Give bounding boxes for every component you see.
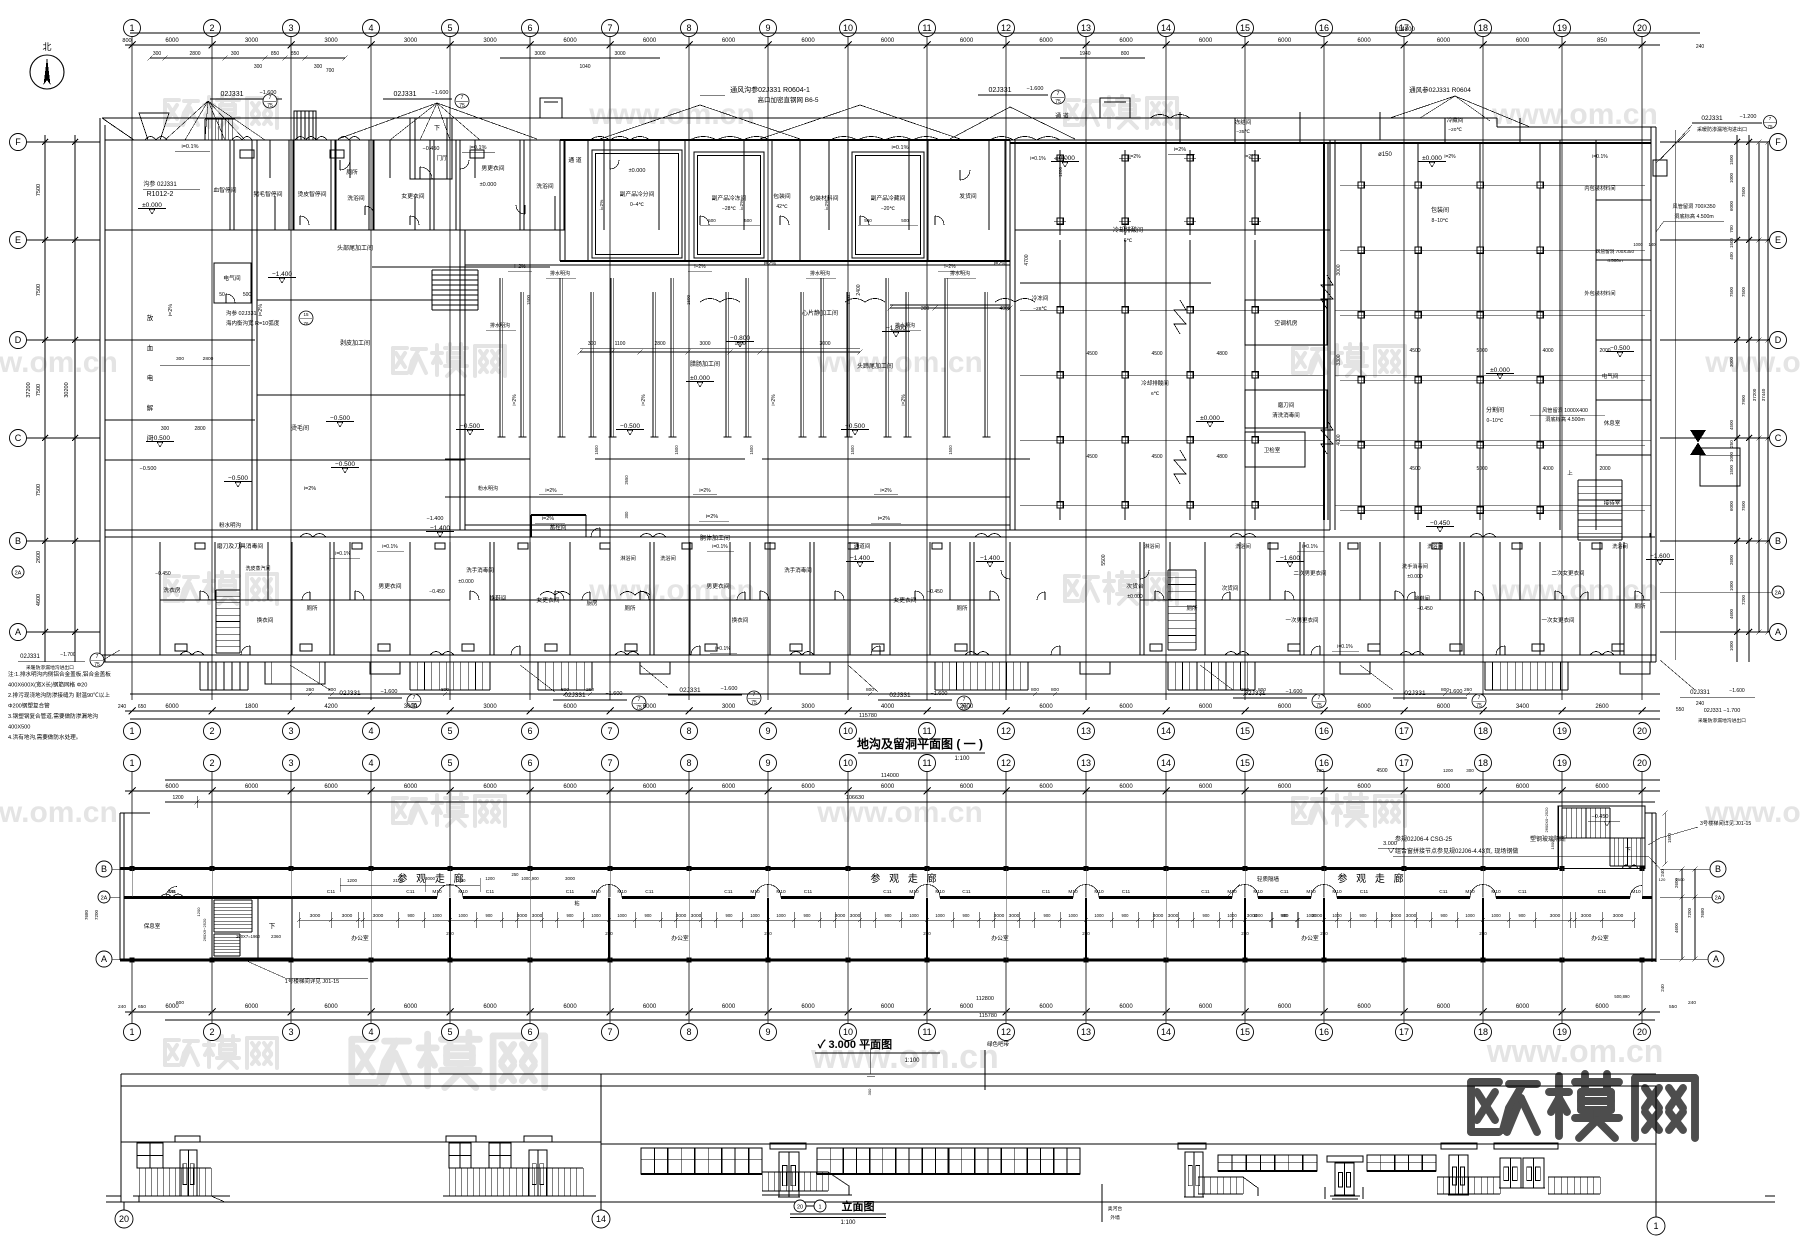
svg-text:3: 3 bbox=[288, 1027, 293, 1037]
svg-text:2A: 2A bbox=[1715, 896, 1722, 902]
svg-text:−0.450: −0.450 bbox=[155, 571, 171, 577]
svg-text:C11: C11 bbox=[1122, 889, 1131, 895]
svg-text:9: 9 bbox=[765, 1027, 770, 1037]
svg-text:6000: 6000 bbox=[1199, 784, 1213, 790]
svg-text:12: 12 bbox=[1001, 758, 1011, 768]
svg-text:6000: 6000 bbox=[1278, 704, 1292, 710]
svg-text:6000: 6000 bbox=[1119, 784, 1133, 790]
svg-text:心片静加工间: 心片静加工间 bbox=[802, 309, 838, 317]
svg-text:2A: 2A bbox=[1775, 591, 1782, 597]
svg-text:1500: 1500 bbox=[594, 445, 599, 455]
svg-text:300: 300 bbox=[1466, 768, 1474, 773]
svg-text:3: 3 bbox=[288, 23, 293, 33]
svg-text:C11: C11 bbox=[962, 889, 971, 895]
svg-text:7: 7 bbox=[96, 654, 99, 660]
svg-text:3000: 3000 bbox=[373, 913, 384, 919]
svg-text:115780: 115780 bbox=[859, 713, 877, 719]
svg-text:i=2%: i=2% bbox=[258, 304, 264, 316]
svg-text:−1.200: −1.200 bbox=[1740, 114, 1757, 120]
svg-text:1000: 1000 bbox=[1306, 913, 1316, 918]
svg-text:4800: 4800 bbox=[1216, 454, 1227, 460]
svg-text:清洗消毒间: 清洗消毒间 bbox=[1272, 411, 1300, 419]
svg-text:240: 240 bbox=[118, 704, 127, 710]
svg-text:剥皮加工间: 剥皮加工间 bbox=[340, 339, 370, 347]
svg-text:300: 300 bbox=[921, 306, 930, 312]
svg-text:厕所: 厕所 bbox=[306, 604, 318, 612]
svg-text:10: 10 bbox=[843, 758, 853, 768]
svg-text:−1.600: −1.600 bbox=[1280, 555, 1300, 562]
svg-text:6000: 6000 bbox=[324, 1004, 338, 1010]
svg-text:1000: 1000 bbox=[458, 913, 468, 918]
svg-text:±0.000: ±0.000 bbox=[1055, 155, 1075, 162]
svg-text:±0.000: ±0.000 bbox=[1422, 155, 1442, 162]
svg-text:800: 800 bbox=[1441, 687, 1449, 693]
svg-text:02J331: 02J331 bbox=[394, 91, 417, 98]
svg-text:±0.000: ±0.000 bbox=[142, 202, 162, 209]
svg-text:−0.500: −0.500 bbox=[1610, 345, 1630, 352]
svg-text:通风沟参02J331 R0604-1: 通风沟参02J331 R0604-1 bbox=[730, 85, 810, 94]
svg-text:800: 800 bbox=[561, 687, 569, 693]
svg-text:6000: 6000 bbox=[165, 784, 179, 790]
svg-text:±0.000: ±0.000 bbox=[629, 168, 646, 174]
svg-text:17: 17 bbox=[1399, 1027, 1409, 1037]
svg-text:C11: C11 bbox=[1201, 889, 1210, 895]
svg-text:3000: 3000 bbox=[614, 51, 625, 57]
svg-text:i=2%: i=2% bbox=[512, 394, 518, 406]
svg-text:6: 6 bbox=[527, 758, 532, 768]
svg-text:500: 500 bbox=[708, 218, 716, 223]
svg-text:一次女更衣间: 一次女更衣间 bbox=[1541, 616, 1574, 624]
svg-text:6000: 6000 bbox=[404, 1004, 418, 1010]
svg-text:3000: 3000 bbox=[691, 913, 702, 919]
svg-text:3000: 3000 bbox=[1153, 913, 1164, 919]
svg-text:850: 850 bbox=[291, 51, 300, 57]
svg-text:二次男更衣间: 二次男更衣间 bbox=[1293, 569, 1326, 577]
svg-text:6000: 6000 bbox=[1199, 704, 1213, 710]
svg-text:6: 6 bbox=[527, 1027, 532, 1037]
svg-text:奥河台: 奥河台 bbox=[1108, 1205, 1123, 1212]
svg-text:6000: 6000 bbox=[1729, 200, 1734, 211]
svg-text:300: 300 bbox=[153, 51, 162, 57]
svg-text:6000: 6000 bbox=[1595, 784, 1609, 790]
svg-text:10: 10 bbox=[843, 1027, 853, 1037]
svg-text:17: 17 bbox=[1399, 758, 1409, 768]
svg-text:02J331: 02J331 bbox=[989, 87, 1012, 94]
svg-text:厕所: 厕所 bbox=[956, 604, 968, 612]
svg-text:www.om.cn: www.om.cn bbox=[816, 346, 983, 379]
svg-text:106630: 106630 bbox=[846, 795, 864, 801]
svg-text:30200: 30200 bbox=[64, 382, 70, 397]
svg-text:−0.500: −0.500 bbox=[150, 435, 170, 442]
svg-text:−0.450: −0.450 bbox=[1417, 606, 1433, 612]
svg-text:18: 18 bbox=[1478, 726, 1488, 736]
svg-text:650: 650 bbox=[138, 704, 147, 710]
svg-text:厕所: 厕所 bbox=[1634, 602, 1646, 610]
svg-text:14: 14 bbox=[1161, 1027, 1171, 1037]
svg-text:塑钢玻璃隔断: 塑钢玻璃隔断 bbox=[1530, 835, 1566, 843]
svg-text:75: 75 bbox=[459, 103, 465, 109]
svg-text:洗浴间: 洗浴间 bbox=[536, 182, 554, 190]
svg-text:1600: 1600 bbox=[1424, 866, 1434, 871]
svg-text:i=0.1%: i=0.1% bbox=[712, 544, 728, 550]
svg-text:16: 16 bbox=[1319, 726, 1329, 736]
svg-text:洗浴间: 洗浴间 bbox=[1235, 542, 1251, 550]
svg-text:4.500m: 4.500m bbox=[1607, 258, 1622, 263]
svg-text:1000: 1000 bbox=[1729, 451, 1734, 462]
svg-text:通风参02J331 R0604: 通风参02J331 R0604 bbox=[1409, 85, 1471, 94]
svg-text:120: 120 bbox=[1337, 866, 1344, 871]
svg-text:3000: 3000 bbox=[483, 38, 497, 44]
svg-text:7500: 7500 bbox=[1741, 286, 1746, 297]
svg-text:13: 13 bbox=[1081, 726, 1091, 736]
svg-text:排水明沟: 排水明沟 bbox=[895, 322, 915, 329]
svg-text:男更衣间: 男更衣间 bbox=[481, 164, 504, 172]
svg-text:900: 900 bbox=[1044, 913, 1052, 918]
svg-text:6000: 6000 bbox=[1039, 1004, 1053, 1010]
svg-text:800: 800 bbox=[1258, 687, 1266, 693]
svg-text:500: 500 bbox=[901, 218, 909, 223]
svg-text:250: 250 bbox=[923, 931, 931, 936]
svg-text:1: 1 bbox=[129, 758, 134, 768]
svg-text:下: 下 bbox=[1625, 847, 1631, 854]
svg-text:M10: M10 bbox=[776, 889, 786, 895]
svg-text:300: 300 bbox=[624, 511, 629, 519]
svg-text:A: A bbox=[1775, 627, 1781, 637]
svg-text:8−10℃: 8−10℃ bbox=[1432, 218, 1449, 224]
svg-text:500: 500 bbox=[243, 292, 252, 298]
svg-text:7900: 7900 bbox=[1741, 394, 1746, 405]
svg-text:风管留洞 700X350: 风管留洞 700X350 bbox=[1673, 202, 1716, 210]
svg-text:风管留洞 1000X400: 风管留洞 1000X400 bbox=[1542, 406, 1588, 414]
svg-text:300: 300 bbox=[176, 356, 184, 362]
svg-text:1500: 1500 bbox=[846, 294, 851, 305]
svg-text:900: 900 bbox=[1519, 913, 1527, 918]
svg-text:1040: 1040 bbox=[579, 64, 590, 70]
svg-text:3000: 3000 bbox=[310, 913, 321, 919]
svg-text:02J331: 02J331 bbox=[679, 687, 701, 694]
svg-text:M10: M10 bbox=[1306, 889, 1316, 895]
svg-text:6000: 6000 bbox=[643, 784, 657, 790]
svg-text:6000: 6000 bbox=[1357, 1004, 1371, 1010]
svg-text:副产品冷藏间: 副产品冷藏间 bbox=[871, 194, 906, 202]
svg-text:02J331: 02J331 bbox=[1690, 690, 1710, 696]
svg-text:400X600X(宽X长)钢筋网格 Φ20: 400X600X(宽X长)钢筋网格 Φ20 bbox=[8, 681, 87, 689]
svg-text:1200: 1200 bbox=[347, 878, 358, 883]
svg-text:240: 240 bbox=[1688, 1000, 1696, 1006]
svg-text:260X9−2520: 260X9−2520 bbox=[202, 918, 207, 942]
svg-text:1500: 1500 bbox=[749, 445, 754, 455]
svg-text:3000: 3000 bbox=[1168, 913, 1179, 919]
svg-text:i=2%: i=2% bbox=[699, 488, 711, 494]
svg-text:3.钢塑钢复合管道,需要做防渗漏地沟: 3.钢塑钢复合管道,需要做防渗漏地沟 bbox=[8, 712, 99, 720]
svg-text:烫毛间: 烫毛间 bbox=[291, 424, 309, 432]
svg-text:7: 7 bbox=[607, 1027, 612, 1037]
svg-text:−1.600: −1.600 bbox=[1650, 553, 1670, 560]
svg-text:19: 19 bbox=[1557, 726, 1567, 736]
svg-text:1800: 1800 bbox=[245, 704, 259, 710]
svg-text:20: 20 bbox=[1637, 758, 1647, 768]
svg-text:14: 14 bbox=[1161, 726, 1171, 736]
svg-text:6000: 6000 bbox=[563, 38, 577, 44]
svg-text:6000: 6000 bbox=[1039, 784, 1053, 790]
svg-text:300: 300 bbox=[161, 426, 170, 432]
svg-text:20: 20 bbox=[1637, 23, 1647, 33]
svg-text:B: B bbox=[1715, 864, 1721, 874]
svg-text:1: 1 bbox=[129, 726, 134, 736]
svg-text:www.om.cn: www.om.cn bbox=[816, 796, 983, 829]
svg-text:男更衣间: 男更衣间 bbox=[706, 582, 729, 590]
svg-text:ø150: ø150 bbox=[1378, 152, 1392, 158]
svg-text:1500: 1500 bbox=[1729, 154, 1734, 165]
svg-text:16: 16 bbox=[1319, 1027, 1329, 1037]
svg-text:6000: 6000 bbox=[404, 784, 418, 790]
svg-text:3000: 3000 bbox=[1729, 356, 1734, 367]
svg-text:1500: 1500 bbox=[526, 294, 531, 305]
svg-text:1000: 1000 bbox=[1094, 913, 1104, 918]
svg-text:250: 250 bbox=[1479, 931, 1487, 936]
svg-text:42℃: 42℃ bbox=[776, 204, 788, 210]
svg-text:3000: 3000 bbox=[1247, 913, 1258, 919]
svg-text:800: 800 bbox=[1031, 687, 1039, 693]
svg-text:A: A bbox=[1713, 954, 1719, 964]
svg-text:3000: 3000 bbox=[565, 876, 576, 881]
svg-text:750: 750 bbox=[459, 878, 467, 883]
svg-text:3000: 3000 bbox=[342, 913, 353, 919]
svg-text:1500: 1500 bbox=[1667, 832, 1672, 843]
svg-text:850: 850 bbox=[271, 51, 280, 57]
svg-text:7680: 7680 bbox=[84, 909, 89, 920]
svg-text:7: 7 bbox=[607, 758, 612, 768]
svg-text:轻质隔墙: 轻质隔墙 bbox=[1257, 875, 1280, 883]
svg-text:4200: 4200 bbox=[324, 704, 338, 710]
svg-text:19: 19 bbox=[1557, 758, 1567, 768]
svg-text:11: 11 bbox=[922, 758, 931, 768]
svg-text:通 道: 通 道 bbox=[1055, 112, 1069, 120]
svg-text:260X7=1960: 260X7=1960 bbox=[236, 934, 261, 939]
svg-text:1000: 1000 bbox=[1729, 640, 1734, 651]
svg-text:办公室: 办公室 bbox=[671, 934, 689, 942]
svg-text:75: 75 bbox=[1476, 703, 1482, 709]
svg-text:500: 500 bbox=[744, 218, 752, 223]
svg-text:250: 250 bbox=[1082, 931, 1090, 936]
svg-text:C: C bbox=[15, 433, 22, 443]
svg-text:C11: C11 bbox=[1360, 889, 1369, 895]
svg-text:1000: 1000 bbox=[1227, 913, 1237, 918]
svg-text:−0.450: −0.450 bbox=[423, 146, 440, 152]
svg-text:2: 2 bbox=[209, 1027, 214, 1037]
svg-text:6000: 6000 bbox=[165, 704, 179, 710]
svg-text:冷却排酸间: 冷却排酸间 bbox=[1113, 226, 1143, 234]
svg-text:M10: M10 bbox=[1332, 889, 1342, 895]
svg-text:6000: 6000 bbox=[1357, 784, 1371, 790]
svg-text:头部尾加工间: 头部尾加工间 bbox=[337, 244, 373, 252]
svg-text:3000: 3000 bbox=[835, 913, 846, 919]
svg-text:C11: C11 bbox=[1280, 889, 1289, 895]
svg-text:02J331 −1.700: 02J331 −1.700 bbox=[1704, 708, 1741, 714]
svg-text:2: 2 bbox=[209, 758, 214, 768]
svg-text:75: 75 bbox=[1055, 99, 1061, 105]
svg-text:6000: 6000 bbox=[1357, 38, 1371, 44]
svg-text:900: 900 bbox=[645, 913, 653, 918]
svg-text:C11: C11 bbox=[1439, 889, 1448, 895]
svg-text:−1.400: −1.400 bbox=[430, 525, 450, 532]
svg-text:R1012-2: R1012-2 bbox=[147, 191, 174, 198]
svg-text:M10: M10 bbox=[1253, 889, 1263, 895]
svg-text:6000: 6000 bbox=[1039, 38, 1053, 44]
svg-text:11: 11 bbox=[922, 23, 931, 33]
svg-text:3000: 3000 bbox=[1009, 913, 1020, 919]
svg-text:A: A bbox=[101, 954, 107, 964]
svg-text:−28℃: −28℃ bbox=[722, 206, 736, 212]
svg-text:8: 8 bbox=[686, 23, 691, 33]
svg-text:14: 14 bbox=[1161, 758, 1171, 768]
svg-text:男更衣间: 男更衣间 bbox=[378, 582, 401, 590]
svg-text:13: 13 bbox=[1081, 1027, 1091, 1037]
svg-text:114800: 114800 bbox=[1395, 27, 1415, 33]
svg-text:6000: 6000 bbox=[1729, 500, 1734, 511]
svg-text:6000: 6000 bbox=[483, 1004, 497, 1010]
svg-text:700: 700 bbox=[326, 68, 335, 74]
svg-text:6000: 6000 bbox=[643, 1004, 657, 1010]
svg-text:C11: C11 bbox=[566, 889, 575, 895]
svg-text:650: 650 bbox=[138, 1004, 146, 1010]
svg-text:i=2%: i=2% bbox=[944, 264, 956, 270]
svg-text:4: 4 bbox=[368, 1027, 373, 1037]
svg-text:6000: 6000 bbox=[563, 704, 577, 710]
svg-text:换鞋间: 换鞋间 bbox=[490, 594, 507, 602]
svg-text:E: E bbox=[1775, 235, 1781, 245]
svg-text:1100: 1100 bbox=[615, 341, 626, 347]
svg-text:12: 12 bbox=[1001, 1027, 1011, 1037]
svg-text:i=2%: i=2% bbox=[706, 514, 718, 520]
svg-text:3000: 3000 bbox=[801, 704, 815, 710]
svg-text:7500: 7500 bbox=[1741, 500, 1746, 511]
svg-text:19: 19 bbox=[1557, 1027, 1567, 1037]
svg-text:250: 250 bbox=[1320, 931, 1328, 936]
svg-text:6000: 6000 bbox=[643, 38, 657, 44]
svg-text:800: 800 bbox=[441, 687, 449, 693]
svg-text:C: C bbox=[1775, 433, 1782, 443]
svg-text:1: 1 bbox=[818, 1205, 821, 1211]
svg-text:6000: 6000 bbox=[1278, 38, 1292, 44]
svg-text:洗手消毒间: 洗手消毒间 bbox=[466, 566, 494, 574]
svg-text:组合窗拼接节点参见规02J06-4.43页, 现场钢做: 组合窗拼接节点参见规02J06-4.43页, 现场钢做 bbox=[1395, 847, 1518, 855]
svg-text:4.洪有地沟,需要做防水处理。: 4.洪有地沟,需要做防水处理。 bbox=[8, 733, 81, 741]
svg-text:2: 2 bbox=[209, 726, 214, 736]
svg-text:海内衡沟宽 R=10弧度: 海内衡沟宽 R=10弧度 bbox=[226, 319, 280, 327]
svg-text:7: 7 bbox=[638, 697, 641, 703]
svg-text:洗皮蒸汽间: 洗皮蒸汽间 bbox=[245, 565, 270, 572]
svg-text:02J331: 02J331 bbox=[20, 654, 40, 660]
svg-text:−0.450: −0.450 bbox=[429, 589, 445, 595]
svg-text:6000: 6000 bbox=[881, 784, 895, 790]
svg-text:B: B bbox=[1775, 536, 1781, 546]
svg-text:6000: 6000 bbox=[324, 784, 338, 790]
svg-text:1: 1 bbox=[129, 23, 134, 33]
svg-text:6000: 6000 bbox=[1119, 1004, 1133, 1010]
svg-text:3300: 3300 bbox=[1336, 354, 1342, 365]
svg-text:M10: M10 bbox=[1465, 889, 1475, 895]
svg-text:i=0.1%: i=0.1% bbox=[1337, 644, 1353, 650]
svg-text:4600: 4600 bbox=[1729, 608, 1734, 619]
svg-text:1200: 1200 bbox=[196, 907, 201, 917]
svg-text:i=2%: i=2% bbox=[739, 199, 745, 211]
svg-text:i=2%: i=2% bbox=[1174, 147, 1186, 153]
svg-text:采暖防渗漏地沟进出口: 采暖防渗漏地沟进出口 bbox=[1698, 717, 1746, 724]
svg-text:1000: 1000 bbox=[1729, 172, 1734, 183]
svg-text:50: 50 bbox=[219, 292, 225, 298]
svg-text:i=2%: i=2% bbox=[880, 488, 892, 494]
svg-text:550: 550 bbox=[1669, 1004, 1677, 1010]
svg-text:C11: C11 bbox=[804, 889, 813, 895]
svg-text:冷却排酸间: 冷却排酸间 bbox=[1141, 379, 1169, 387]
svg-text:下: 下 bbox=[269, 922, 276, 930]
svg-text:6000: 6000 bbox=[245, 1004, 259, 1010]
svg-text:3000: 3000 bbox=[1406, 913, 1417, 919]
svg-text:6000: 6000 bbox=[722, 1004, 736, 1010]
svg-text:300: 300 bbox=[867, 1088, 872, 1095]
svg-text:6000: 6000 bbox=[1278, 1004, 1292, 1010]
svg-text:休息室: 休息室 bbox=[1604, 419, 1621, 427]
svg-text:9: 9 bbox=[765, 758, 770, 768]
svg-text:C11: C11 bbox=[327, 889, 336, 895]
svg-text:女更衣间: 女更衣间 bbox=[536, 596, 559, 604]
svg-text:2A: 2A bbox=[101, 896, 108, 902]
svg-text:260: 260 bbox=[1241, 687, 1249, 693]
svg-text:75: 75 bbox=[1767, 124, 1773, 129]
svg-text:5: 5 bbox=[447, 758, 452, 768]
svg-text:C11: C11 bbox=[486, 889, 495, 895]
svg-text:i=2%: i=2% bbox=[1444, 154, 1456, 160]
svg-text:3000: 3000 bbox=[1550, 913, 1561, 919]
svg-text:4500: 4500 bbox=[1729, 419, 1734, 430]
svg-text:400: 400 bbox=[1729, 252, 1734, 260]
svg-text:37200: 37200 bbox=[26, 382, 32, 397]
svg-text:2600X0−2520: 2600X0−2520 bbox=[1544, 807, 1549, 833]
svg-text:厨房: 厨房 bbox=[586, 599, 598, 607]
svg-text:900: 900 bbox=[885, 913, 893, 918]
svg-text:6000: 6000 bbox=[722, 38, 736, 44]
svg-text:参规02J06-4 CSG-25: 参规02J06-4 CSG-25 bbox=[1395, 835, 1453, 843]
svg-text:10: 10 bbox=[843, 23, 853, 33]
svg-text:2000: 2000 bbox=[960, 704, 974, 710]
svg-text:3000: 3000 bbox=[534, 51, 545, 57]
svg-text:3000: 3000 bbox=[483, 704, 497, 710]
svg-text:C11: C11 bbox=[645, 889, 654, 895]
svg-text:i=0.1%: i=0.1% bbox=[1592, 154, 1608, 160]
svg-text:洗浴间: 洗浴间 bbox=[347, 194, 365, 202]
svg-text:洗浴间: 洗浴间 bbox=[1612, 542, 1628, 550]
svg-text:7: 7 bbox=[963, 697, 966, 703]
svg-text:6000: 6000 bbox=[245, 784, 259, 790]
svg-text:7: 7 bbox=[413, 695, 416, 701]
svg-text:6000: 6000 bbox=[801, 38, 815, 44]
svg-text:i=2%: i=2% bbox=[599, 199, 605, 211]
svg-text:14: 14 bbox=[596, 1214, 606, 1224]
svg-text:i=2%: i=2% bbox=[542, 516, 554, 522]
svg-text:6000: 6000 bbox=[1595, 1004, 1609, 1010]
svg-text:7200: 7200 bbox=[1741, 594, 1746, 605]
svg-text:4500: 4500 bbox=[1409, 466, 1420, 472]
svg-text:分割间: 分割间 bbox=[1486, 406, 1504, 414]
svg-text:1500: 1500 bbox=[1676, 877, 1686, 882]
svg-text:2650: 2650 bbox=[624, 475, 629, 485]
svg-text:12: 12 bbox=[1001, 23, 1011, 33]
svg-text:−1.600: −1.600 bbox=[1027, 86, 1044, 92]
svg-text:300: 300 bbox=[231, 51, 240, 57]
svg-text:1300: 1300 bbox=[734, 341, 745, 347]
svg-text:6000: 6000 bbox=[483, 784, 497, 790]
